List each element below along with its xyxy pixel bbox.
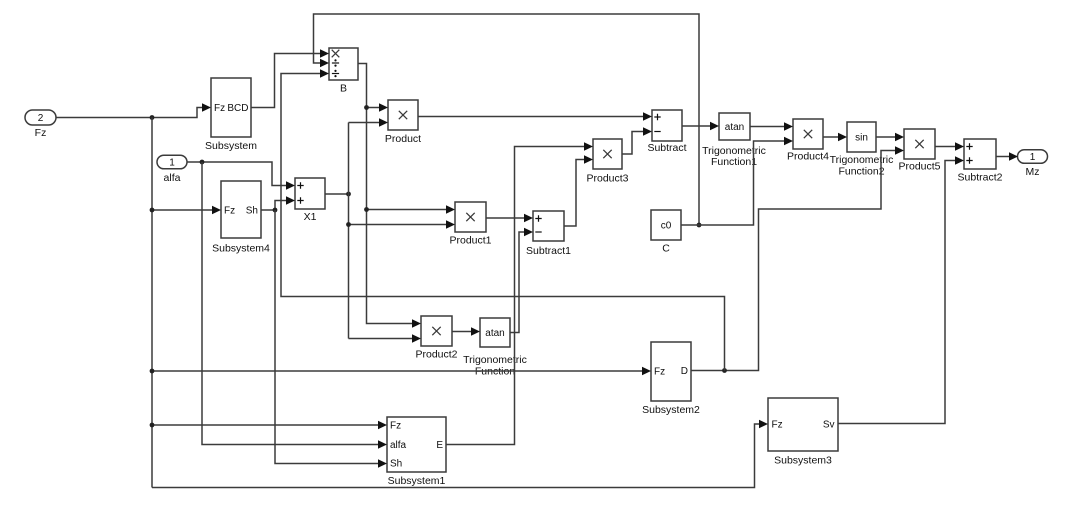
wire Fz from inport to junction and Subsystem.Fz [56,103,211,120]
wire Product to Subtract.in1 [418,112,652,120]
subsystem Subsystem3 (Fz->Sv) [768,398,838,467]
product block Product3 [586,139,628,185]
wire X1 output [325,192,351,197]
wire Subtract1 to Product3.in2 [564,155,593,226]
svg-text:Sh: Sh [246,206,258,217]
svg-text:atan: atan [725,122,744,133]
wire Product3 to Subtract.in2 [622,127,652,154]
svg-text:Subsystem1: Subsystem1 [388,475,446,487]
svg-text:Product: Product [385,133,421,145]
sum block Subtract2 (+,+) [958,139,1003,184]
svg-text:Product5: Product5 [898,161,940,173]
wire Product4 to sin [823,133,847,141]
wire D from Subsystem2 to Product5.in2 [691,146,904,373]
svg-text:Subtract2: Subtract2 [958,172,1003,184]
svg-text:alfa: alfa [164,172,181,184]
svg-text:Fz: Fz [214,103,225,114]
product block Product1 [449,202,491,247]
svg-text:1: 1 [1030,152,1036,163]
wire Fz to Subsystem1.Fz [150,421,387,429]
svg-text:alfa: alfa [390,440,407,451]
wire Product2 to Trigonometric Function [452,327,480,335]
svg-text:Trigonometric: Trigonometric [463,354,527,366]
svg-text:Subsystem: Subsystem [205,140,257,152]
svg-text:Trigonometric: Trigonometric [830,154,894,166]
product block Product [385,100,421,145]
wire alfa to Subsystem1.alfa [202,162,387,449]
svg-text:2: 2 [38,113,44,124]
svg-text:Sv: Sv [823,420,835,431]
product block Product4 [787,119,829,163]
svg-text:Subtract: Subtract [647,142,686,154]
inport 2 (Fz) [25,110,56,139]
svg-text:Mz: Mz [1026,166,1040,178]
wire B to Product1.in1 [364,205,455,213]
product block Product2 [415,316,457,361]
svg-text:sin: sin [855,133,868,144]
wire Sh from Subsystem4 to X1.in2 [261,196,295,212]
wire X1 to Product1.in2 [346,220,455,228]
wire atan to Subtract1.in2 [510,228,533,333]
svg-text:B: B [340,83,347,95]
wire Product5 to Subtract2.in1 [935,142,964,150]
wire Subtract2 to Mz outport [996,152,1018,160]
svg-text:C: C [662,243,670,255]
wire Fz vertical trunk [151,118,153,488]
wire B to Product.in1 [364,103,388,111]
wire E from Subsystem1 to Product3.in1 [446,142,593,444]
wire sin to Product5.in1 [876,133,904,141]
sum block X1 (+,+) [295,178,325,223]
outport 1 (Mz) [1018,150,1048,178]
wire D branch to B.in3 [281,69,725,370]
wire Fz to Subsystem2.Fz [150,367,651,375]
svg-text:Product2: Product2 [415,349,457,361]
wire Fz bottom rail to Subsystem3.Fz [152,420,768,488]
product block B (x,/,/) [329,48,358,95]
svg-text:Fz: Fz [772,420,783,431]
wire B output trunk [358,64,421,328]
svg-text:Fz: Fz [224,206,235,217]
svg-text:Sh: Sh [390,459,402,470]
svg-text:Subsystem3: Subsystem3 [774,455,832,467]
svg-text:X1: X1 [304,211,317,223]
svg-text:Subtract1: Subtract1 [526,245,571,257]
svg-text:D: D [681,366,688,377]
svg-text:c0: c0 [661,221,672,232]
constant block C (c0) [651,210,681,255]
svg-text:1: 1 [169,158,175,169]
svg-text:Product3: Product3 [586,173,628,185]
subsystem Subsystem4 (Fz->Sh) [212,181,270,255]
svg-text:Function2: Function2 [838,166,884,178]
product block Product5 [898,129,940,173]
block Trigonometric Function2 (sin) [830,122,894,178]
wire X1 trunk vertical [348,123,350,339]
wire atan1 to Product4.in1 [750,122,793,130]
wire BCD from Subsystem to B.in1 [251,49,329,107]
sum block Subtract (+,-) [647,110,686,154]
svg-text:E: E [436,440,443,451]
wire c0 to Product4.in2 [681,137,793,225]
wire alfa from inport [187,160,295,190]
subsystem Subsystem2 (Fz->D) [642,342,700,416]
block Trigonometric Function1 (atan) [702,113,766,168]
svg-text:BCD: BCD [227,103,248,114]
wire X1 to Product2.in2 [349,334,422,342]
svg-text:Product1: Product1 [449,235,491,247]
block Trigonometric Function (atan) [463,318,527,378]
wire X1 to Product.in2 [349,118,389,126]
svg-text:Subsystem2: Subsystem2 [642,404,700,416]
svg-text:Function1: Function1 [711,156,757,168]
inport 1 (alfa) [157,155,187,184]
wire Product1 to Subtract1.in1 [486,214,533,222]
svg-text:atan: atan [485,328,504,339]
wire C top rail to B.in2 [314,14,702,227]
subsystem Subsystem1 (Fz,alfa,Sh->E) [387,417,446,487]
svg-text:Subsystem4: Subsystem4 [212,243,270,255]
svg-text:Product4: Product4 [787,151,829,163]
wire Fz to Subsystem4.Fz [150,206,221,214]
svg-text:Fz: Fz [35,127,47,139]
svg-text:Fz: Fz [654,367,665,378]
wire Sv from Subsystem3 to Subtract2.in2 [838,156,964,423]
sum block Subtract1 (+,-) [526,211,571,257]
wire Subtract to Trigonometric Function1 [682,122,719,130]
subsystem Subsystem (Fz->BCD) [205,78,257,152]
svg-text:Fz: Fz [390,421,401,432]
wire Sh to Subsystem1.Sh [275,210,387,468]
